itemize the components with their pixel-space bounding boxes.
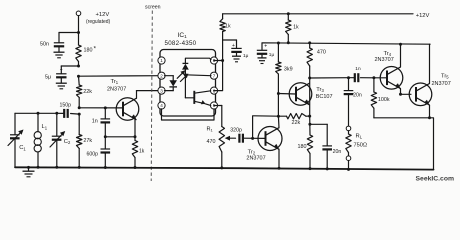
- capacitor 1u second: [257, 44, 275, 59]
- resistor 22k feedback: [278, 114, 309, 127]
- svg-text:2: 2: [160, 73, 163, 78]
- svg-text:3: 3: [160, 88, 163, 93]
- svg-text:2N3707: 2N3707: [246, 156, 265, 162]
- svg-text:Tr5: Tr5: [441, 73, 449, 79]
- wire Tr2 collector: [277, 116, 280, 128]
- node C junction LED feed: [77, 75, 80, 78]
- resistor 27k: [77, 114, 93, 167]
- svg-text:2N3707: 2N3707: [432, 81, 451, 87]
- capacitor 1u first: [231, 43, 248, 59]
- node I emitter tap junction: [104, 135, 107, 138]
- light arrows: [177, 70, 188, 81]
- svg-text:470: 470: [317, 50, 326, 56]
- resistor 1k pin8: [220, 14, 231, 61]
- svg-text:22k: 22k: [83, 89, 92, 95]
- svg-text:Tr3: Tr3: [316, 87, 324, 93]
- transistor Tr3: [289, 83, 332, 106]
- screen shield dashed line: [145, 5, 161, 181]
- transistor Tr1: [107, 79, 139, 120]
- wire 1u tap: [223, 40, 237, 48]
- node A junction on supply column: [77, 31, 80, 34]
- pin 8: [210, 57, 217, 64]
- node rail junctions: [37, 166, 224, 170]
- svg-text:27k: 27k: [83, 138, 92, 144]
- wire Tr3 base: [278, 93, 296, 96]
- svg-text:20n: 20n: [333, 149, 342, 155]
- capacitor 600p: [87, 137, 111, 168]
- wire node D to Tr1 base: [79, 107, 123, 109]
- svg-text:1μ: 1μ: [243, 53, 249, 59]
- inductor L1: [34, 113, 48, 167]
- transistor Tr2: [246, 127, 282, 162]
- svg-text:320p: 320p: [230, 127, 242, 133]
- resistor 1k emitter: [132, 141, 144, 168]
- pin 6: [210, 87, 217, 94]
- svg-text:Tr1: Tr1: [111, 79, 119, 85]
- wire 20n branch: [310, 124, 327, 145]
- ground 5u: [56, 83, 67, 89]
- svg-text:+: +: [264, 44, 267, 50]
- wire +12V top rail: [223, 13, 430, 19]
- svg-text:1μ: 1μ: [269, 52, 275, 58]
- node H 1n junction top: [104, 106, 107, 109]
- resistor 100k: [371, 78, 390, 118]
- svg-text:3k9: 3k9: [284, 66, 293, 72]
- wire emitter feedback rail: [374, 118, 434, 170]
- pin 7: [210, 72, 217, 79]
- svg-text:(regulated): (regulated): [86, 19, 111, 25]
- wire 150p to tank: [57, 112, 63, 114]
- preset R1 470: [207, 127, 225, 168]
- pin 2: [158, 72, 165, 79]
- resistor 3k9: [276, 43, 293, 94]
- svg-text:50n: 50n: [40, 42, 49, 48]
- wire Tr3 collector column: [309, 78, 311, 116]
- node F L1 top junction: [37, 112, 40, 115]
- svg-text:180: 180: [84, 48, 93, 54]
- wire Tr3 emitter column: [309, 116, 311, 135]
- svg-text:screen: screen: [145, 5, 161, 11]
- resistor 1k second: [286, 14, 299, 43]
- ground 1u first: [232, 56, 241, 62]
- wire Tr2 base: [244, 137, 266, 139]
- node D base node junction: [78, 106, 81, 109]
- node M mid rail junction 1k: [287, 41, 290, 44]
- svg-text:BC107: BC107: [316, 94, 333, 100]
- LED inside IC1: [165, 76, 178, 91]
- wire emitter link: [105, 136, 135, 138]
- node S 22k right junction: [308, 115, 311, 118]
- svg-text:R1: R1: [207, 127, 214, 133]
- pin 1: [158, 57, 165, 64]
- transistor Tr4: [375, 51, 403, 89]
- wire 3k9 column down: [277, 94, 279, 117]
- wire feedback to Tr2 base: [253, 116, 279, 139]
- svg-text:+: +: [60, 68, 63, 74]
- wire pin5 to R1: [214, 106, 222, 127]
- svg-text:2N3707: 2N3707: [375, 57, 394, 63]
- pin 5: [210, 102, 217, 109]
- node L rail 1k junction: [287, 12, 290, 15]
- wire Tr1 collector to IC pin 3: [137, 91, 162, 99]
- node G C2 top junction: [55, 112, 58, 115]
- svg-text:5μ: 5μ: [45, 75, 51, 81]
- wire mid rail: [262, 43, 430, 50]
- svg-text:600p: 600p: [87, 151, 99, 157]
- node R Tr3 collector junction: [308, 77, 311, 80]
- wire Tr4 emitter to Tr5 base: [399, 89, 411, 96]
- wire tank top: [15, 113, 57, 134]
- svg-text:1n: 1n: [355, 66, 361, 72]
- arrow 320p to R1 wiper: [225, 136, 236, 141]
- svg-text:C2: C2: [64, 139, 71, 145]
- wire pin8 node: [214, 60, 223, 62]
- svg-text:180: 180: [298, 144, 307, 150]
- opto-isolator IC1 package outline: [160, 50, 216, 117]
- wire photodiode cathode to pin 8: [185, 58, 211, 63]
- variable capacitor C2: [50, 113, 71, 167]
- capacitor 5u electrolytic: [45, 68, 67, 83]
- svg-text:1k: 1k: [139, 149, 145, 155]
- svg-text:22k: 22k: [292, 120, 301, 126]
- svg-text:2N3707: 2N3707: [107, 86, 126, 92]
- pin 4: [158, 102, 165, 109]
- capacitor 50n: [40, 42, 64, 52]
- power terminal +12V regulated: [76, 11, 110, 33]
- svg-text:C1: C1: [19, 145, 26, 151]
- transistor Tr5: [409, 73, 451, 105]
- photodiode inside IC1: [182, 63, 189, 97]
- svg-text:470: 470: [207, 139, 216, 145]
- svg-text:L1: L1: [42, 124, 48, 130]
- ground tank: [23, 166, 35, 177]
- node W 100k junction: [372, 76, 375, 79]
- capacitor 20n first: [322, 146, 341, 171]
- capacitor 320p: [230, 127, 244, 142]
- svg-text:750Ω: 750Ω: [354, 142, 368, 148]
- svg-text:150p: 150p: [60, 103, 72, 109]
- variable capacitor C1: [8, 130, 26, 168]
- wire to 5u: [61, 66, 78, 73]
- svg-text:5082-4350: 5082-4350: [165, 40, 197, 47]
- svg-text:+12V: +12V: [416, 13, 430, 19]
- svg-text:1n: 1n: [92, 119, 98, 125]
- wire ground rail: [15, 167, 434, 169]
- capacitor 150p: [60, 103, 72, 118]
- resistor 470 second: [307, 43, 326, 78]
- svg-text:1k: 1k: [225, 24, 231, 30]
- wire supply to 50n: [59, 33, 79, 43]
- capacitor 1n left: [92, 108, 110, 137]
- ground 50n: [54, 52, 65, 58]
- wire node E to 150p: [71, 113, 80, 116]
- pin 3: [158, 87, 165, 94]
- resistor 180 left: [76, 33, 97, 67]
- wire Tr4 collector: [399, 43, 402, 67]
- wire Tr3 collector to right: [310, 77, 349, 79]
- svg-text:1: 1: [160, 58, 163, 63]
- node O Tr3 base junction: [277, 92, 280, 95]
- node N mid rail 3k9 junction: [277, 42, 280, 45]
- resistor 22k left: [77, 76, 93, 108]
- load resistor RL with terminals: [346, 126, 367, 171]
- wire pin 7 tap: [185, 74, 211, 77]
- svg-text:4: 4: [160, 103, 163, 108]
- resistor 180 second: [298, 135, 313, 170]
- wire pin4 to pin5 link: [162, 109, 215, 120]
- node T Tr2 base junction: [251, 137, 254, 140]
- svg-text:RL: RL: [356, 134, 363, 140]
- node P feedback junction: [277, 115, 280, 118]
- wire to Tr4 base: [374, 77, 387, 79]
- node U emitter-180 junction: [308, 123, 311, 126]
- svg-text:1k: 1k: [293, 25, 299, 31]
- wire node C to IC pin 2: [79, 75, 162, 78]
- watermark SeekIC.com: [416, 176, 455, 183]
- phototransistor inside IC1: [185, 91, 210, 106]
- IC1 label: [165, 32, 197, 47]
- capacitor 1n right: [349, 66, 374, 82]
- wire Tr5 emitter: [428, 105, 431, 119]
- capacitor 20n output: [344, 78, 362, 126]
- wire Tr5 collector: [429, 44, 432, 83]
- node K pin8 junction: [221, 59, 224, 62]
- node J pin7 tap: [184, 73, 187, 76]
- wire Tr1 emitter: [134, 120, 137, 141]
- wire Tr2 emitter: [278, 149, 281, 170]
- node B junction 5u tap: [77, 65, 80, 68]
- ground 1u second: [258, 58, 267, 64]
- node Q mid rail 470 junction: [308, 41, 311, 44]
- svg-text:100k: 100k: [378, 97, 390, 103]
- wire pin8 to pin6 link: [214, 61, 223, 91]
- svg-text:20n: 20n: [353, 92, 362, 98]
- svg-text:7: 7: [213, 73, 216, 78]
- svg-text:+12V: +12V: [96, 12, 110, 18]
- node V 20n out junction: [347, 76, 350, 79]
- node E 150p junction: [78, 113, 81, 116]
- svg-text:SeekIC.com: SeekIC.com: [416, 176, 455, 183]
